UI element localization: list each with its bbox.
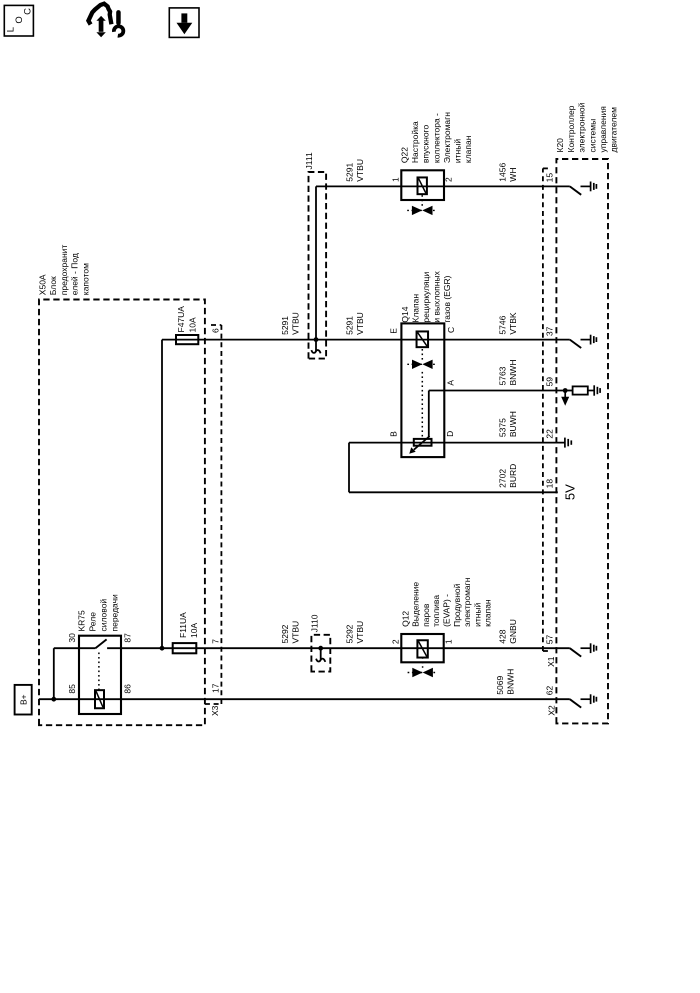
svg-text:22: 22 <box>544 429 554 439</box>
svg-text:5291: 5291 <box>345 316 355 335</box>
svg-text:VTBK: VTBK <box>508 312 518 335</box>
svg-text:B: B <box>389 431 399 437</box>
svg-text:D: D <box>445 431 455 437</box>
svg-text:электронной: электронной <box>577 102 587 152</box>
svg-text:VTBU: VTBU <box>355 621 365 644</box>
svg-text:5746: 5746 <box>498 315 508 334</box>
svg-text:15: 15 <box>544 173 554 183</box>
svg-text:7: 7 <box>210 639 220 644</box>
svg-text:Настройка: Настройка <box>410 121 420 163</box>
svg-text:A: A <box>445 380 455 386</box>
svg-text:5291: 5291 <box>345 163 355 182</box>
svg-text:VTBU: VTBU <box>291 312 301 335</box>
svg-text:2702: 2702 <box>498 469 508 488</box>
svg-text:клапан: клапан <box>463 135 473 163</box>
svg-text:силовой: силовой <box>99 599 109 632</box>
svg-text:18: 18 <box>544 479 554 489</box>
svg-text:капотом: капотом <box>81 263 91 295</box>
svg-text:KR75: KR75 <box>77 610 87 632</box>
svg-text:клапан: клапан <box>483 599 493 627</box>
svg-text:X50A: X50A <box>37 274 47 295</box>
svg-text:10A: 10A <box>188 317 198 332</box>
svg-text:Реле: Реле <box>88 612 98 632</box>
svg-text:системы: системы <box>587 119 597 153</box>
svg-text:2: 2 <box>390 639 400 644</box>
svg-text:VTBU: VTBU <box>355 312 365 335</box>
svg-text:5291: 5291 <box>280 316 290 335</box>
svg-text:E: E <box>389 328 399 334</box>
svg-text:5292: 5292 <box>345 624 355 643</box>
svg-text:59: 59 <box>544 377 554 387</box>
svg-text:5069: 5069 <box>495 676 505 695</box>
svg-text:двигателем: двигателем <box>609 107 619 153</box>
svg-text:топлива: топлива <box>431 595 441 627</box>
svg-text:85: 85 <box>67 684 77 694</box>
svg-text:C: C <box>446 327 456 333</box>
svg-text:Клапан: Клапан <box>410 294 420 323</box>
svg-text:J111: J111 <box>304 152 314 169</box>
svg-text:X3: X3 <box>210 705 220 716</box>
svg-text:1: 1 <box>390 177 400 182</box>
svg-text:VTBU: VTBU <box>355 159 365 182</box>
svg-text:2: 2 <box>444 177 454 182</box>
svg-text:Q12: Q12 <box>400 611 410 627</box>
svg-text:X2: X2 <box>546 705 556 716</box>
svg-text:J110: J110 <box>310 614 320 632</box>
svg-text:BNWH: BNWH <box>508 360 518 386</box>
svg-text:428: 428 <box>498 629 508 643</box>
svg-text:BNWH: BNWH <box>506 669 516 695</box>
svg-text:электромагн: электромагн <box>462 577 472 627</box>
svg-text:87: 87 <box>122 633 132 643</box>
svg-text:Q22: Q22 <box>400 147 410 163</box>
svg-text:управления: управления <box>598 106 608 153</box>
svg-text:GNBU: GNBU <box>508 619 518 644</box>
svg-text:рециркуляци: рециркуляци <box>421 271 431 322</box>
svg-text:елей - Под: елей - Под <box>70 253 80 295</box>
svg-text:(EVAP) -: (EVAP) - <box>442 594 452 627</box>
svg-text:5763: 5763 <box>498 366 508 385</box>
svg-text:5375: 5375 <box>498 418 508 437</box>
svg-text:1456: 1456 <box>498 163 508 182</box>
svg-text:Выделение: Выделение <box>411 582 421 627</box>
svg-text:10A: 10A <box>189 623 199 638</box>
svg-text:F47UA: F47UA <box>176 306 186 333</box>
svg-text:X1: X1 <box>546 656 556 667</box>
svg-text:паров: паров <box>421 603 431 627</box>
svg-text:итный: итный <box>453 139 463 163</box>
svg-text:впускного: впускного <box>421 125 431 164</box>
svg-text:Q14: Q14 <box>400 306 410 322</box>
svg-text:итный: итный <box>472 602 482 626</box>
svg-text:86: 86 <box>122 684 132 694</box>
svg-text:коллектора -: коллектора - <box>431 113 441 163</box>
svg-text:Блок: Блок <box>48 276 58 295</box>
svg-text:C: C <box>22 8 33 15</box>
svg-text:Электромагн: Электромагн <box>442 112 452 163</box>
svg-text:VTBU: VTBU <box>291 621 301 644</box>
svg-text:предохранит: предохранит <box>59 245 69 296</box>
svg-text:30: 30 <box>67 633 77 643</box>
svg-text:17: 17 <box>210 683 220 693</box>
svg-text:L: L <box>5 27 16 32</box>
svg-text:Продувной: Продувной <box>452 583 462 627</box>
svg-text:WH: WH <box>508 168 518 182</box>
svg-text:газов (EGR): газов (EGR) <box>442 275 452 322</box>
svg-text:O: O <box>14 16 25 23</box>
svg-text:62: 62 <box>544 685 554 695</box>
svg-text:B+: B+ <box>18 694 28 705</box>
svg-text:BURD: BURD <box>508 464 518 488</box>
svg-text:6: 6 <box>210 328 220 333</box>
svg-text:F11UA: F11UA <box>178 612 188 638</box>
svg-text:К20: К20 <box>555 138 565 153</box>
svg-text:передачи: передачи <box>110 594 120 632</box>
svg-text:BUWH: BUWH <box>508 411 518 437</box>
svg-text:и выхлопных: и выхлопных <box>432 270 442 322</box>
svg-text:5V: 5V <box>563 484 578 500</box>
svg-text:5292: 5292 <box>280 624 290 643</box>
svg-text:Контроллер: Контроллер <box>566 105 576 152</box>
svg-text:1: 1 <box>444 639 454 644</box>
svg-text:57: 57 <box>544 634 554 644</box>
svg-text:37: 37 <box>544 326 554 336</box>
